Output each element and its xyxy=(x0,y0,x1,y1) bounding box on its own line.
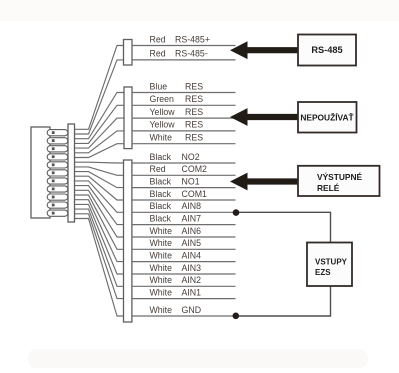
wire Red COM2 lead and labels xyxy=(132,164,236,175)
svg-text:COM2: COM2 xyxy=(182,164,208,174)
wire Green RES fan segment xyxy=(75,105,125,143)
net GND to VSTUPY EZS xyxy=(236,285,331,316)
arrow to relay terminals xyxy=(230,173,299,191)
wire Red RS-485- lead and labels xyxy=(132,49,236,60)
svg-text:Black: Black xyxy=(150,201,172,211)
arrow to RS-485 terminals xyxy=(230,41,299,59)
svg-text:RS-485+: RS-485+ xyxy=(175,34,210,44)
connector J1 pin 3 xyxy=(47,146,68,152)
svg-text:White: White xyxy=(150,133,173,143)
svg-text:Black: Black xyxy=(150,213,172,223)
svg-text:White: White xyxy=(150,287,173,297)
svg-text:Red: Red xyxy=(150,49,166,59)
svg-text:VÝSTUPNÉ: VÝSTUPNÉ xyxy=(317,171,363,182)
svg-text:NO1: NO1 xyxy=(182,176,200,186)
wire White AIN5 fan segment xyxy=(75,195,125,249)
svg-text:RELÉ: RELÉ xyxy=(317,182,340,193)
connector J1 pin 9 xyxy=(47,194,68,200)
svg-text:RES: RES xyxy=(185,133,203,143)
wire Red RS-485+ lead and labels xyxy=(132,34,236,45)
svg-text:AIN4: AIN4 xyxy=(182,250,202,260)
svg-text:Black: Black xyxy=(150,152,172,162)
wire White GND lead and labels xyxy=(132,305,236,316)
svg-text:EZS: EZS xyxy=(315,268,331,277)
svg-text:VSTUPY: VSTUPY xyxy=(315,258,348,267)
svg-text:Red: Red xyxy=(150,34,166,44)
box VSTUPY EZS xyxy=(307,243,352,287)
box RS-485 xyxy=(298,35,356,66)
svg-text:White: White xyxy=(150,238,173,248)
wire White RES lead and labels xyxy=(132,133,236,144)
wire Yellow RES fan segment xyxy=(75,131,125,153)
wire Black NO1 lead and labels xyxy=(132,176,236,187)
wire White AIN4 fan segment xyxy=(75,200,125,262)
wire Black NO2 lead and labels xyxy=(132,152,236,163)
svg-text:GND: GND xyxy=(182,305,202,315)
svg-text:AIN7: AIN7 xyxy=(182,213,202,223)
connector J1 pin 10 xyxy=(47,202,68,208)
svg-text:White: White xyxy=(150,250,173,260)
wire Black COM1 lead and labels xyxy=(132,189,236,200)
wire Black AIN8 lead and labels xyxy=(132,201,236,212)
svg-text:AIN3: AIN3 xyxy=(182,263,202,273)
wire Black AIN7 lead and labels xyxy=(132,213,236,224)
svg-text:AIN1: AIN1 xyxy=(182,287,202,297)
wire White AIN5 lead and labels xyxy=(132,238,236,249)
connector J1 pin 6 xyxy=(47,170,68,176)
wire Black NO2 fan segment xyxy=(75,161,125,164)
junction dot GND xyxy=(233,313,240,320)
connector J1 body xyxy=(31,127,50,218)
svg-text:Yellow: Yellow xyxy=(150,120,176,130)
connector J1 header bar xyxy=(68,124,75,222)
wire White AIN6 lead and labels xyxy=(132,226,236,237)
svg-text:RES: RES xyxy=(185,107,203,117)
terminal strip B (RES) xyxy=(124,87,132,149)
svg-text:White: White xyxy=(150,226,173,236)
connector J1 pin 4 xyxy=(47,154,68,160)
svg-text:White: White xyxy=(150,305,173,315)
svg-text:Green: Green xyxy=(150,94,175,104)
svg-text:White: White xyxy=(150,263,173,273)
terminal strip A (RS-485) xyxy=(124,40,133,66)
wire Yellow RES fan segment xyxy=(75,118,125,148)
svg-text:NO2: NO2 xyxy=(182,152,200,162)
junction dot AIN8 xyxy=(233,209,240,216)
svg-text:AIN6: AIN6 xyxy=(182,226,202,236)
svg-text:AIN5: AIN5 xyxy=(182,238,202,248)
connector J1 pin 11 xyxy=(47,210,68,216)
wire Yellow RES lead and labels xyxy=(132,107,236,118)
svg-text:RES: RES xyxy=(185,81,203,91)
svg-text:AIN2: AIN2 xyxy=(182,275,202,285)
wire White AIN1 fan segment xyxy=(75,214,125,299)
arrow to RES terminals xyxy=(230,108,299,126)
wire Blue RES fan segment xyxy=(75,93,125,139)
box NEPOUŽÍVAŤ xyxy=(298,102,357,133)
wire Red RS-485- fan segment xyxy=(75,60,125,134)
wire Black AIN7 fan segment xyxy=(75,186,125,225)
connector J1 pin 5 xyxy=(47,162,68,168)
svg-text:RES: RES xyxy=(185,120,203,130)
connector J1 pin 7 xyxy=(47,178,68,184)
svg-text:White: White xyxy=(150,275,173,285)
svg-text:COM1: COM1 xyxy=(182,189,208,199)
svg-text:RS-485-: RS-485- xyxy=(175,49,208,59)
svg-text:Black: Black xyxy=(150,176,172,186)
wire Red COM2 fan segment xyxy=(75,167,125,175)
wire White GND fan segment xyxy=(75,219,125,317)
wire Black AIN8 fan segment xyxy=(75,181,125,212)
box VÝSTUPNÉ RELÉ xyxy=(298,166,380,196)
wire White AIN1 lead and labels xyxy=(132,287,236,298)
wire Red RS-485+ fan segment xyxy=(75,46,125,130)
svg-text:RS-485: RS-485 xyxy=(311,45,342,55)
connector J1 pin 8 xyxy=(47,186,68,192)
svg-text:Red: Red xyxy=(150,164,166,174)
wire White AIN4 lead and labels xyxy=(132,250,236,261)
wire White AIN2 fan segment xyxy=(75,209,125,286)
svg-text:Yellow: Yellow xyxy=(150,107,176,117)
connector J1 pin 1 xyxy=(47,130,68,136)
svg-text:NEPOUŽÍVAŤ: NEPOUŽÍVAŤ xyxy=(300,111,354,122)
wire White AIN3 lead and labels xyxy=(132,263,236,274)
wire White RES fan segment xyxy=(75,144,125,158)
wire Black COM1 fan segment xyxy=(75,176,125,200)
wire White AIN6 fan segment xyxy=(75,190,125,237)
connector J1 pin 2 xyxy=(47,138,68,144)
terminal strip C (relay / inputs) xyxy=(124,160,132,322)
wire Green RES lead and labels xyxy=(132,94,236,105)
svg-text:Black: Black xyxy=(150,189,172,199)
wire White AIN3 fan segment xyxy=(75,204,125,274)
wire Yellow RES lead and labels xyxy=(132,120,236,131)
wire White AIN2 lead and labels xyxy=(132,275,236,286)
svg-text:AIN8: AIN8 xyxy=(182,201,202,211)
wire Blue RES lead and labels xyxy=(132,81,236,92)
net AIN8 to VSTUPY EZS xyxy=(236,212,331,243)
svg-text:Blue: Blue xyxy=(150,81,168,91)
svg-text:RES: RES xyxy=(185,94,203,104)
wire Black NO1 fan segment xyxy=(75,172,125,188)
